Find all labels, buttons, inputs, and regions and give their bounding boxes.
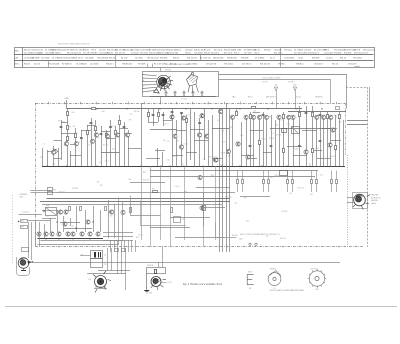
mic connection wires bbox=[29, 247, 32, 261]
svg-text:R40 41: R40 41 bbox=[24, 64, 30, 66]
svg-text:TR6 BC158: TR6 BC158 bbox=[122, 64, 132, 66]
vertical wires lower mid bbox=[142, 166, 216, 246]
protection box bbox=[291, 124, 300, 133]
svg-text:R21: R21 bbox=[100, 185, 103, 187]
thermistor TH1 pictorial bbox=[347, 193, 370, 210]
board boundary top chain line bbox=[36, 103, 346, 105]
svg-text:C3 4 1: C3 4 1 bbox=[38, 50, 43, 52]
feedback wire resistor bbox=[152, 188, 158, 192]
svg-text:R17 2.2k: R17 2.2k bbox=[261, 138, 267, 140]
svg-text:C12 2: C12 2 bbox=[314, 53, 319, 55]
parts table row line 1 bbox=[14, 54, 374, 56]
parts table divider a bbox=[48, 61, 50, 68]
board assembly caption bbox=[240, 233, 280, 236]
svg-text:R12 4.7k: R12 4.7k bbox=[111, 126, 117, 128]
board boundary bottom chain line bbox=[36, 246, 364, 248]
ground rail thick bbox=[42, 166, 345, 168]
heatsink boundary vertical 2 bbox=[369, 87, 371, 112]
routed wire a bbox=[131, 196, 161, 216]
svg-text:TR1 2 BC1: TR1 2 BC1 bbox=[224, 64, 233, 66]
thermistor label bbox=[371, 195, 381, 205]
parts table divider c bbox=[200, 55, 202, 61]
svg-text:C12 25/2: C12 25/2 bbox=[135, 57, 142, 59]
inset view box bbox=[143, 72, 219, 97]
input vertical wires bbox=[29, 222, 40, 247]
svg-text:R33 6.8k: R33 6.8k bbox=[344, 53, 351, 55]
svg-text:R40 41: R40 41 bbox=[83, 50, 89, 52]
svg-text:6.8k: 6.8k bbox=[99, 162, 102, 164]
table header note bbox=[58, 43, 89, 46]
svg-text:R21 23 4.7k: R21 23 4.7k bbox=[115, 53, 125, 55]
supply rail junction dots bbox=[96, 108, 322, 109]
svg-text:R15 16: R15 16 bbox=[109, 57, 115, 59]
svg-text:LS1: LS1 bbox=[88, 279, 91, 281]
svg-text:C12 25/25: C12 25/25 bbox=[41, 57, 50, 59]
supply entry bbox=[64, 98, 69, 109]
svg-text:R4: R4 bbox=[309, 163, 311, 165]
wire labels above bbox=[262, 77, 281, 79]
output bus dots bbox=[45, 238, 90, 239]
svg-text:ELECT CIRCUIT BOARD ASSY P: ELECT CIRCUIT BOARD ASSY PL 1068 (SHT 2) bbox=[240, 233, 280, 236]
svg-text:TR1 2: TR1 2 bbox=[91, 50, 96, 52]
svg-text:C14: C14 bbox=[53, 164, 56, 166]
svg-text:6.8k: 6.8k bbox=[97, 181, 100, 183]
svg-text:R30 33k: R30 33k bbox=[134, 111, 139, 113]
svg-text:100k: 100k bbox=[339, 122, 342, 124]
svg-text:C7 50u: C7 50u bbox=[93, 130, 98, 132]
drawing number bbox=[146, 292, 152, 295]
svg-text:TO PIN 9: TO PIN 9 bbox=[288, 82, 294, 84]
svg-text:C30: C30 bbox=[182, 219, 185, 221]
lower-left inner wiring bbox=[42, 200, 115, 239]
component value labels lower bbox=[46, 172, 323, 240]
svg-text:C8 0.047: C8 0.047 bbox=[274, 50, 281, 52]
parts table row 3 entries bbox=[24, 64, 357, 66]
resistors lower right bbox=[237, 171, 338, 184]
svg-text:C8 0.047 160: C8 0.047 160 bbox=[167, 53, 178, 55]
svg-text:D1 2 IN414: D1 2 IN414 bbox=[294, 50, 303, 52]
svg-text:R12 4.7k: R12 4.7k bbox=[298, 188, 304, 190]
svg-text:D1 2 IN: D1 2 IN bbox=[354, 50, 361, 52]
svg-text:TR6 BC1: TR6 BC1 bbox=[296, 64, 304, 66]
svg-text:R7 560R: R7 560R bbox=[67, 50, 75, 52]
parts table row 2 entries bbox=[24, 56, 362, 59]
svg-text:VR1 1k prese: VR1 1k prese bbox=[363, 49, 374, 52]
svg-text:SK4: SK4 bbox=[21, 221, 24, 223]
HT supply rail right bbox=[288, 111, 346, 113]
svg-text:C3 4 100: C3 4 100 bbox=[131, 53, 138, 55]
svg-text:R15 16 1k: R15 16 1k bbox=[224, 53, 232, 55]
svg-text:R26 1.2k: R26 1.2k bbox=[275, 175, 281, 177]
svg-text:TR1 2 BC14: TR1 2 BC14 bbox=[304, 53, 314, 55]
svg-text:82k: 82k bbox=[110, 215, 113, 217]
svg-text:2.7k: 2.7k bbox=[88, 144, 91, 146]
inset subheading bbox=[165, 69, 171, 71]
svg-text:R4: R4 bbox=[72, 226, 74, 228]
svg-text:C9 25u: C9 25u bbox=[237, 144, 242, 146]
svg-text:R12 4.7k: R12 4.7k bbox=[219, 164, 225, 166]
HT supply rail bbox=[67, 108, 303, 110]
svg-text:LS 15 ohm: LS 15 ohm bbox=[22, 211, 30, 213]
fuse box on ground wire bbox=[48, 188, 57, 195]
transistors upper and mid bbox=[53, 109, 335, 162]
svg-text:SK2: SK2 bbox=[293, 85, 296, 87]
svg-text:1 2 3 4 5: 1 2 3 4 5 bbox=[181, 98, 187, 100]
svg-text:C4 0.1: C4 0.1 bbox=[186, 114, 190, 116]
svg-text:TR1 2 BC: TR1 2 BC bbox=[140, 53, 149, 55]
board boundary right lower dotted bbox=[347, 155, 349, 247]
svg-text:TR1 2: TR1 2 bbox=[254, 53, 259, 55]
inset lead label c bbox=[143, 86, 144, 88]
svg-text:R7 560R 1: R7 560R 1 bbox=[149, 50, 158, 52]
svg-text:SCREENED: SCREENED bbox=[19, 194, 27, 196]
transistors lower mid bbox=[58, 175, 204, 226]
svg-text:SK1: SK1 bbox=[274, 85, 277, 87]
input junction dot bbox=[18, 221, 19, 222]
svg-text:R30 31 100k: R30 31 100k bbox=[224, 50, 235, 52]
svg-text:R21 23: R21 23 bbox=[340, 57, 346, 59]
svg-text:D1 2 IN4: D1 2 IN4 bbox=[234, 50, 241, 52]
inset test point marks bbox=[148, 64, 161, 72]
svg-text:R21 23 4.: R21 23 4. bbox=[274, 53, 282, 55]
inset heading bbox=[166, 64, 191, 66]
svg-text:TR8 BFY51: TR8 BFY51 bbox=[315, 97, 323, 99]
inset potentiometer leads bbox=[142, 75, 157, 93]
svg-text:100k: 100k bbox=[112, 148, 115, 150]
output bus bar bbox=[38, 238, 104, 240]
lower mid horizontal stubs bbox=[130, 183, 270, 238]
svg-text:C8 0.047: C8 0.047 bbox=[185, 50, 192, 52]
svg-text:TO SK1: TO SK1 bbox=[167, 282, 172, 284]
svg-text:C3 4 1: C3 4 1 bbox=[363, 53, 368, 55]
capacitor box C30 bbox=[174, 217, 185, 223]
ground rail junction dots bbox=[46, 166, 311, 168]
svg-text:C11 4u: C11 4u bbox=[175, 186, 180, 188]
svg-text:C8 0.047 1: C8 0.047 1 bbox=[314, 64, 323, 66]
lower rail A bbox=[150, 170, 318, 172]
svg-text:R12 4.7k: R12 4.7k bbox=[329, 156, 335, 158]
svg-text:R1 2 47k 1/4W: R1 2 47k 1/4W bbox=[154, 64, 166, 66]
svg-text:R19 15k: R19 15k bbox=[282, 211, 288, 213]
svg-text:R21 23 4.7: R21 23 4.7 bbox=[74, 57, 83, 59]
svg-text:C1: C1 bbox=[78, 142, 80, 144]
wire inset to heatsink upper bbox=[219, 75, 347, 109]
svg-text:R21: R21 bbox=[62, 122, 65, 124]
board boundary left chain line bbox=[35, 103, 37, 247]
svg-text:R17 2.2k: R17 2.2k bbox=[59, 192, 65, 194]
svg-text:R23: R23 bbox=[269, 116, 272, 118]
svg-text:2.7k: 2.7k bbox=[281, 120, 284, 122]
svg-text:D1 2 IN4148: D1 2 IN4148 bbox=[76, 64, 86, 66]
upper section link wires bbox=[48, 113, 368, 159]
input wire lower bbox=[27, 220, 50, 222]
svg-text:C12 25: C12 25 bbox=[254, 50, 260, 52]
svg-text:C4 0.1: C4 0.1 bbox=[315, 148, 319, 150]
wire junction at mic bbox=[32, 261, 33, 262]
svg-text:C8 0.047 160: C8 0.047 160 bbox=[63, 57, 74, 59]
svg-text:R33 6.8k: R33 6.8k bbox=[241, 57, 248, 59]
svg-text:FS1: FS1 bbox=[53, 190, 56, 192]
svg-text:C14: C14 bbox=[222, 130, 225, 132]
wires crossing bottom boundary bbox=[111, 240, 136, 252]
svg-text:R8 680: R8 680 bbox=[221, 152, 226, 154]
board boundary right chain line bbox=[345, 103, 347, 155]
svg-text:C12 25/: C12 25/ bbox=[99, 50, 106, 52]
svg-text:MOUNTED ON: MOUNTED ON bbox=[371, 197, 381, 199]
parts table row line 2 bbox=[14, 60, 374, 62]
svg-text:R21 23 4.7k: R21 23 4.7k bbox=[187, 57, 197, 59]
nested block outline 2 bbox=[41, 202, 123, 241]
svg-text:R7 560R: R7 560R bbox=[138, 64, 146, 66]
svg-text:220k: 220k bbox=[203, 159, 206, 161]
svg-text:C12 25/25: C12 25/25 bbox=[90, 64, 99, 66]
svg-text:TR2: TR2 bbox=[129, 114, 132, 116]
svg-text:560: 560 bbox=[335, 117, 338, 119]
boundary stub components bbox=[115, 249, 126, 252]
svg-text:C4 0.1: C4 0.1 bbox=[222, 141, 226, 143]
svg-text:TR1 2: TR1 2 bbox=[324, 50, 329, 52]
svg-text:C8 0.047: C8 0.047 bbox=[59, 50, 66, 52]
svg-text:R12 4.7k: R12 4.7k bbox=[269, 138, 275, 140]
svg-text:82k: 82k bbox=[40, 157, 43, 159]
left wire to rail bbox=[31, 190, 51, 192]
svg-text:R21 2: R21 2 bbox=[234, 53, 239, 55]
svg-text:C12 25: C12 25 bbox=[34, 64, 40, 66]
svg-text:R11: R11 bbox=[217, 120, 220, 122]
svg-text:TR10 TR11: TR10 TR11 bbox=[371, 195, 379, 197]
svg-text:C8 0.047 16: C8 0.047 16 bbox=[206, 64, 216, 66]
svg-text:560: 560 bbox=[270, 177, 273, 179]
svg-text:R19 15k: R19 15k bbox=[143, 179, 149, 181]
microphone MIC1 pictorial bbox=[17, 257, 33, 275]
transformer secondary wires bbox=[87, 248, 130, 290]
svg-text:C3 4 100/2: C3 4 100/2 bbox=[324, 53, 333, 55]
svg-text:R14 390: R14 390 bbox=[276, 135, 281, 137]
chain line crossing ticks bbox=[49, 102, 337, 104]
svg-text:C3 4 100/25: C3 4 100/25 bbox=[284, 57, 294, 59]
svg-text:R23: R23 bbox=[229, 127, 232, 129]
svg-text:TR2: TR2 bbox=[310, 194, 313, 196]
svg-text:C17 18 0.: C17 18 0. bbox=[244, 53, 252, 55]
svg-text:VR1 1k: VR1 1k bbox=[185, 53, 191, 55]
svg-text:220k: 220k bbox=[210, 175, 214, 177]
svg-text:R23: R23 bbox=[58, 120, 61, 122]
svg-text:R7 560R 1/: R7 560R 1/ bbox=[62, 64, 72, 66]
svg-text:TR6 BC: TR6 BC bbox=[278, 64, 285, 66]
svg-text:R21: R21 bbox=[143, 172, 146, 174]
heatsink boundary link bbox=[346, 87, 368, 89]
svg-text:D1 2 IN414: D1 2 IN414 bbox=[255, 57, 264, 59]
svg-text:C4 0.1: C4 0.1 bbox=[164, 124, 168, 126]
svg-text:4.7k: 4.7k bbox=[167, 141, 170, 143]
svg-text:R14 390: R14 390 bbox=[104, 131, 109, 133]
upper section vertical wires bbox=[43, 103, 344, 252]
lower rail B bbox=[150, 176, 315, 178]
svg-text:C3 4 1: C3 4 1 bbox=[298, 57, 303, 59]
vertical wires lower right bbox=[238, 171, 337, 193]
svg-text:C9 25u: C9 25u bbox=[214, 157, 219, 159]
routed wire b bbox=[141, 201, 186, 226]
svg-text:D1 2 IN4148: D1 2 IN4148 bbox=[52, 57, 62, 59]
svg-text:R8 680: R8 680 bbox=[294, 149, 299, 151]
svg-text:R30 33k: R30 33k bbox=[72, 188, 78, 190]
svg-text:100k: 100k bbox=[239, 238, 243, 240]
speaker rear view symbol bbox=[268, 268, 281, 290]
svg-text:C14: C14 bbox=[254, 111, 257, 113]
svg-text:C20 220: C20 220 bbox=[304, 50, 311, 52]
svg-text:VR1 1k pr: VR1 1k pr bbox=[284, 49, 293, 52]
svg-text:R33 6.8: R33 6.8 bbox=[264, 50, 270, 52]
svg-text:R44: R44 bbox=[152, 188, 155, 190]
svg-text:R33 6.8k: R33 6.8k bbox=[312, 57, 319, 59]
svg-text:R15 16 1k: R15 16 1k bbox=[214, 50, 222, 52]
output transistor row bbox=[37, 232, 100, 236]
upper section resistors and capacitors bbox=[60, 107, 341, 153]
svg-text:TR2: TR2 bbox=[68, 127, 71, 129]
svg-text:100k: 100k bbox=[102, 111, 105, 113]
svg-text:R21: R21 bbox=[177, 141, 180, 143]
svg-text:R15 16: R15 16 bbox=[24, 50, 30, 52]
svg-text:a: a bbox=[143, 74, 144, 76]
svg-text:C17 18 0: C17 18 0 bbox=[83, 53, 90, 55]
svg-text:R14 390: R14 390 bbox=[232, 235, 238, 237]
svg-text:C17 18 0.1 p: C17 18 0.1 p bbox=[294, 53, 305, 55]
svg-text:R1 2 47k 1/4: R1 2 47k 1/4 bbox=[200, 57, 210, 59]
svg-text:R12 4.7k: R12 4.7k bbox=[225, 197, 231, 199]
svg-text:C8 0.047 1: C8 0.047 1 bbox=[158, 50, 167, 52]
svg-text:C4 0.1: C4 0.1 bbox=[138, 234, 143, 236]
svg-text:W1: W1 bbox=[249, 288, 251, 290]
diode lower right bbox=[202, 192, 225, 226]
svg-text:TR2: TR2 bbox=[184, 192, 187, 194]
svg-text:R40 41 1: R40 41 1 bbox=[106, 64, 113, 66]
dark component upper mid bbox=[282, 129, 287, 133]
svg-text:Fig. 4 Tricolour unit 2 amp: Fig. 4 Tricolour unit 2 amplifier circui… bbox=[183, 283, 222, 286]
parts table continuation note bbox=[354, 65, 360, 68]
svg-text:D1 2 I: D1 2 I bbox=[270, 57, 275, 59]
parts table divider b bbox=[115, 55, 117, 68]
svg-text:C8 0.04: C8 0.04 bbox=[31, 50, 37, 52]
svg-text:TP1 TP2: TP1 TP2 bbox=[165, 69, 171, 71]
svg-text:(contd): (contd) bbox=[354, 65, 360, 68]
svg-text:TR1 2: TR1 2 bbox=[176, 50, 181, 52]
loudspeaker LS1 pictorial bbox=[88, 271, 111, 293]
legend note bbox=[270, 289, 305, 292]
long feedback wire bbox=[31, 192, 236, 194]
svg-text:VR1 1k pre: VR1 1k pre bbox=[354, 52, 363, 55]
svg-text:4.7k: 4.7k bbox=[75, 133, 78, 135]
svg-text:100k: 100k bbox=[240, 135, 243, 137]
svg-text:LS: LS bbox=[274, 288, 276, 290]
svg-text:TR1 2 BC1: TR1 2 BC1 bbox=[353, 57, 362, 59]
svg-text:C3 4 10: C3 4 10 bbox=[326, 57, 332, 59]
svg-text:C12 25/25: C12 25/25 bbox=[131, 50, 140, 52]
input labels bbox=[19, 194, 27, 198]
svg-text:R17 2.2k: R17 2.2k bbox=[334, 115, 340, 117]
svg-text:R7 560R 1: R7 560R 1 bbox=[52, 53, 61, 55]
output transformer T1 bbox=[80, 251, 107, 268]
svg-text:R40 41: R40 41 bbox=[173, 57, 179, 59]
svg-text:O/P: O/P bbox=[104, 264, 107, 266]
inset transistor TR9 pictorial bbox=[187, 72, 199, 92]
input socket SK4 bbox=[21, 220, 28, 223]
tag plate rear view symbol bbox=[308, 268, 327, 291]
svg-text:C24 0.1: C24 0.1 bbox=[296, 97, 301, 99]
svg-text:R12 4.7k: R12 4.7k bbox=[280, 238, 286, 240]
svg-text:R7 560R: R7 560R bbox=[32, 57, 40, 59]
connector labels bbox=[262, 82, 294, 84]
svg-text:TR1 2 BC148: TR1 2 BC148 bbox=[48, 64, 59, 66]
inset potentiometer VR1 pictorial bbox=[154, 75, 173, 93]
svg-text:100k: 100k bbox=[71, 112, 74, 114]
bundle wire 3 bbox=[42, 204, 222, 206]
svg-text:R30 31 100: R30 31 100 bbox=[204, 53, 214, 55]
svg-text:C1: C1 bbox=[43, 143, 45, 145]
page rule line bbox=[5, 306, 397, 308]
long output wire bbox=[33, 262, 341, 264]
left transistor bbox=[51, 150, 55, 154]
svg-text:R19 15k: R19 15k bbox=[209, 156, 214, 158]
component value labels upper bbox=[40, 111, 342, 167]
relay contact box top right bbox=[336, 107, 340, 110]
parts table row label 3 bbox=[15, 64, 20, 66]
svg-text:82k: 82k bbox=[246, 220, 249, 222]
svg-text:VR1 SET QUIESCENT CURRENT: VR1 SET QUIESCENT CURRENT bbox=[166, 64, 191, 66]
nested block outline 1 bbox=[38, 198, 119, 245]
off-board connector arrows bbox=[274, 85, 296, 109]
svg-text:TR6 BC: TR6 BC bbox=[91, 53, 98, 55]
parts table divider d bbox=[280, 47, 282, 67]
bundle wire 2 bbox=[40, 201, 230, 203]
parts table border bbox=[15, 48, 375, 68]
svg-text:TR7: TR7 bbox=[129, 120, 132, 122]
svg-text:R11: R11 bbox=[173, 156, 176, 158]
svg-text:16 SWG TINNED COPPER: 16 SWG TINNED COPPER bbox=[262, 77, 281, 79]
inset tag numbers bbox=[181, 98, 187, 100]
wire inset to heatsink lower bbox=[219, 80, 331, 104]
svg-text:C20 2200/: C20 2200/ bbox=[194, 53, 203, 55]
svg-text:(SEE NOTE 2): (SEE NOTE 2) bbox=[266, 97, 276, 99]
svg-text:R1 2 47: R1 2 47 bbox=[204, 50, 210, 52]
svg-text:VR1 1k preset: VR1 1k preset bbox=[147, 56, 159, 59]
parts table row 1 entries bbox=[24, 49, 374, 55]
routed wire c bbox=[216, 223, 237, 238]
svg-text:TR7: TR7 bbox=[97, 138, 100, 140]
svg-text:TO PIN 7: TO PIN 7 bbox=[262, 82, 268, 84]
svg-text:C20 2200/: C20 2200/ bbox=[85, 57, 94, 59]
svg-text:560: 560 bbox=[167, 159, 170, 161]
svg-text:C20 2: C20 2 bbox=[214, 53, 219, 55]
left margin fold line bbox=[12, 195, 14, 265]
parts table row label 2 bbox=[15, 56, 19, 59]
input socket SK5 bbox=[21, 226, 28, 229]
svg-text:R12 4.7k: R12 4.7k bbox=[103, 145, 109, 147]
svg-text:C20 22: C20 22 bbox=[75, 53, 81, 55]
svg-text:C17 18 0.1: C17 18 0.1 bbox=[242, 64, 251, 66]
exit wires lower left bbox=[103, 233, 133, 241]
lower-band resistors bbox=[60, 107, 341, 153]
svg-text:560: 560 bbox=[218, 160, 221, 162]
fuse holder and pilot lamp pictorial bbox=[144, 247, 172, 292]
svg-text:C14: C14 bbox=[234, 202, 237, 204]
svg-text:560: 560 bbox=[129, 179, 132, 181]
svg-text:R15 16: R15 16 bbox=[332, 64, 338, 66]
svg-text:R30 31: R30 31 bbox=[107, 53, 113, 55]
inset lead label a bbox=[143, 74, 144, 76]
inset lead label b bbox=[143, 80, 144, 82]
svg-text:R1 2 47: R1 2 47 bbox=[121, 57, 127, 59]
interconnect note row bbox=[232, 96, 323, 99]
